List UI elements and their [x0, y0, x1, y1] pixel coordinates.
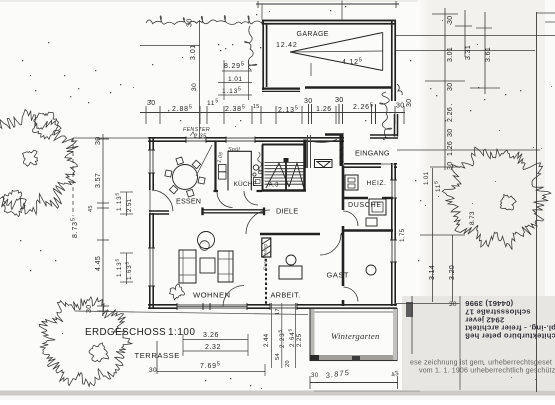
svg-text:A.3: A.3 — [269, 182, 279, 189]
svg-text:2.35: 2.35 — [193, 134, 207, 140]
svg-text:3.26: 3.26 — [203, 332, 219, 339]
svg-text:30: 30 — [406, 98, 413, 107]
svg-text:30: 30 — [304, 98, 312, 105]
svg-text:KÜCHE: KÜCHE — [234, 180, 258, 188]
svg-text:3.57: 3.57 — [95, 173, 102, 188]
svg-text:45: 45 — [88, 205, 94, 212]
svg-text:3.01: 3.01 — [190, 44, 197, 60]
svg-text:1:100: 1:100 — [168, 327, 196, 338]
svg-text:Spül: Spül — [228, 147, 240, 153]
svg-text:8.73: 8.73 — [469, 211, 476, 225]
svg-text:30: 30 — [311, 372, 319, 379]
svg-text:Wintergarten: Wintergarten — [331, 331, 380, 341]
svg-text:30: 30 — [335, 95, 344, 104]
svg-text:3.14: 3.14 — [429, 265, 436, 280]
svg-text:HEIZ.: HEIZ. — [367, 180, 387, 187]
svg-text:30: 30 — [449, 301, 457, 308]
svg-text:Durchgang: Durchgang — [263, 244, 269, 270]
svg-text:3.61: 3.61 — [485, 47, 492, 62]
svg-text:2.44: 2.44 — [263, 333, 270, 347]
svg-text:30: 30 — [147, 100, 155, 107]
svg-text:20: 20 — [285, 360, 291, 367]
svg-text:30: 30 — [86, 304, 93, 313]
svg-text:3.01: 3.01 — [447, 47, 454, 62]
svg-text:3.31: 3.31 — [465, 45, 472, 60]
svg-text:30: 30 — [149, 367, 157, 374]
svg-text:GARAGE: GARAGE — [297, 31, 329, 38]
svg-text:12.42: 12.42 — [276, 42, 298, 49]
svg-text:3.20: 3.20 — [449, 265, 456, 280]
svg-text:4.45: 4.45 — [95, 256, 102, 271]
svg-text:1.01: 1.01 — [423, 171, 430, 185]
svg-text:30: 30 — [447, 15, 454, 24]
svg-text:30: 30 — [447, 161, 454, 170]
svg-text:1.26: 1.26 — [316, 106, 332, 113]
svg-text:30: 30 — [95, 136, 102, 145]
svg-text:30: 30 — [187, 18, 194, 27]
svg-text:ERDGESCHOSS: ERDGESCHOSS — [85, 327, 166, 338]
svg-text:DIELE: DIELE — [276, 207, 298, 216]
svg-text:54: 54 — [275, 353, 281, 360]
svg-text:GAST: GAST — [327, 271, 349, 280]
svg-text:15: 15 — [253, 104, 260, 110]
svg-text:1.26: 1.26 — [447, 141, 454, 156]
svg-text:WOHNEN: WOHNEN — [193, 291, 230, 300]
svg-text:EINGANG: EINGANG — [355, 149, 390, 158]
svg-text:vom 1. 1. 1906 urheberrechtlic: vom 1. 1. 1906 urheberrechtlich geschütz… — [419, 368, 555, 375]
svg-text:FENSTER: FENSTER — [183, 127, 210, 133]
svg-text:2.25: 2.25 — [296, 333, 303, 347]
svg-text:2.51: 2.51 — [126, 198, 133, 212]
svg-text:ESSEN: ESSEN — [176, 197, 201, 206]
svg-text:(04461) 3996: (04461) 3996 — [465, 299, 513, 308]
svg-text:30: 30 — [447, 128, 454, 137]
svg-text:30: 30 — [191, 83, 198, 91]
svg-text:2.26: 2.26 — [447, 107, 454, 122]
svg-text:30: 30 — [396, 103, 404, 110]
svg-text:30: 30 — [447, 82, 454, 91]
svg-text:DUSCHE: DUSCHE — [348, 202, 382, 209]
svg-text:1.01: 1.01 — [228, 76, 242, 83]
svg-text:1.75: 1.75 — [399, 228, 406, 242]
svg-text:ARBEIT.: ARBEIT. — [271, 291, 301, 300]
svg-text:2.32: 2.32 — [205, 344, 221, 351]
svg-text:ese zeichnung ist gem. urheber: ese zeichnung ist gem. urheberrechtsgese… — [410, 360, 552, 367]
